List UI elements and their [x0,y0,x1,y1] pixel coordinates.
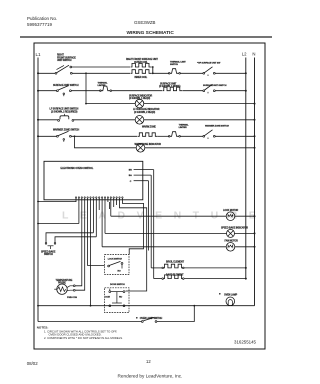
wire pin7 stub [92,202,94,233]
svg-text:N: N [252,51,255,56]
wire L1 to pin1 [38,201,76,203]
svg-text:UNIT SWITCH: UNIT SWITCH [57,60,72,62]
wire row D switch to warm zone coil [71,135,137,137]
switch surface unit row B [57,86,72,97]
wire switch to L2 row B [215,90,246,92]
switch lock switch internal [108,261,123,272]
wire L1 to row B switch [38,90,57,92]
switch warmer zone [57,131,72,142]
label temperature probe [56,279,73,285]
wire limiter to switch row D [180,135,203,137]
svg-text:SWITCH: SWITCH [170,64,178,66]
motor M2 fan motor [226,243,235,252]
svg-text:BR: BR [129,170,132,172]
wire row B switch to limiter [71,90,100,92]
lamp oven lamp [226,297,235,306]
lock switch box (dashed) [105,255,129,275]
junction L1 row D [37,135,39,137]
junction L1 pin2 wire [37,223,39,225]
junction L2 broil [245,267,247,269]
wire speed bake indicator to N [235,232,255,234]
wire lock motor row [111,215,226,217]
wire pin15 stub [116,202,118,205]
notes [37,326,123,340]
svg-text:* RF SURFACE UNIT SW: * RF SURFACE UNIT SW [197,62,221,65]
label thermal limiter row D [179,124,190,130]
switch SW1 right front surface unit (double pole) [55,65,72,74]
wire row A upper to outer coil [72,66,130,68]
wire row A tap down [85,73,87,103]
wire tap to indicator lamp [86,103,135,105]
thermal limiter row A [170,69,179,74]
junction N fan motor [254,246,256,248]
switch LF surface unit (bracket style) [58,114,74,121]
svg-text:SWITCH: SWITCH [44,254,53,256]
svg-text:BROIL ELEMENT: BROIL ELEMENT [166,262,185,264]
wire L1 to warmer zone switch [38,135,57,137]
wire row D to N [215,135,254,137]
svg-text:LIMITER: LIMITER [179,127,188,129]
wire L2 rail [245,58,247,279]
wire pin17 cascade to lock switch box top [122,202,143,255]
wire pin6 to bottom wire [90,202,92,306]
svg-text:SPEED BAKE: SPEED BAKE [41,250,56,253]
wire to broil element [151,267,162,269]
svg-text:SURFACE INDICATOR: SURFACE INDICATOR [129,94,153,97]
junction N speed bake [254,232,256,234]
indicator lamp warm zone [136,144,145,153]
thermal limiter row D [170,132,179,137]
svg-text:INNER COIL: INNER COIL [135,77,148,79]
wire pin10 to fan motor row [101,202,103,247]
svg-text:2. COMPONENTS WITH * DO NOT A: 2. COMPONENTS WITH * DO NOT APPEAR IN AL… [44,336,123,340]
svg-text:LOCK SWITCH: LOCK SWITCH [108,259,123,261]
svg-text:COM: COM [105,296,110,298]
svg-text:12: 12 [146,359,151,364]
svg-text:LF SURFACE INDICATOR: LF SURFACE INDICATOR [133,108,160,111]
junction N row C [254,119,256,121]
wire row C switch to indicator [74,119,135,121]
wire speed bake right lead [55,237,96,243]
wire L1 rail [37,58,39,322]
wire pin9 stub [98,202,100,210]
resistor temperature probe [54,284,75,294]
junction L1 row C [37,119,39,121]
label LF surface indicator [133,108,160,114]
wire to bake element [154,278,162,280]
junction L1 pin1 wire [37,201,39,203]
junction L1 row A [37,72,39,74]
wire row A lower to inner coil [72,72,130,74]
wire fan motor to N [235,246,255,248]
switch oven lamp [141,317,157,322]
header underline rule [20,36,272,38]
svg-text:ELECTRONIC OVEN CONTROL: ELECTRONIC OVEN CONTROL [61,168,94,170]
label thermal limit switch row A [170,60,186,66]
wire oven lamp switch branch [38,321,141,323]
wire broil element to L2 [184,267,246,269]
wire RF switch to L2 [215,72,246,74]
svg-text:DOOR SWITCH: DOOR SWITCH [110,284,125,286]
svg-text:BA: BA [129,174,132,177]
wire stub BA down to broil element [150,175,152,268]
svg-text:RIGHT: RIGHT [57,55,65,57]
wire row D indicator branch [75,136,137,148]
svg-text:SURFACE UNIT SWITCH: SURFACE UNIT SWITCH [203,84,227,87]
switch door switch internal [105,289,125,307]
resistor surface unit coil [163,87,183,91]
resistor broil element [162,264,184,269]
wire indicator to N row B [144,103,255,105]
wire pin5 to lock switch box [88,202,105,266]
wire row A to limiter [153,72,169,74]
label speed bake switch [41,250,56,256]
svg-text:5995377719: 5995377719 [27,22,53,27]
wire pin11 to speed bake indicator row [104,202,106,233]
svg-text:TEMPERATURE: TEMPERATURE [56,279,73,282]
electronic oven control box U1 [44,161,143,200]
wire stub C down [148,181,150,251]
wire stub BR down to bake element [153,170,155,279]
wire bottom main to N [38,305,255,307]
wire pin8 stub [95,202,97,237]
wire coil to switch row B [183,90,203,92]
indicator lamp surface indicator [135,99,144,108]
row C: LF surface unit switch label [50,108,79,114]
junction bottom wire riser [193,305,195,307]
switch speed bake [45,242,56,249]
svg-text:08/02: 08/02 [27,361,39,366]
wire pin2 to speed bake switch [78,202,80,224]
svg-text:SPEED BAKE INDICATOR: SPEED BAKE INDICATOR [221,226,248,229]
junction N row B indicator [254,103,256,105]
wire oven lamp switch to riser [157,306,194,322]
wire L1 to pin2 [38,223,79,225]
junction N row D indicator [254,147,256,149]
wire N rail [254,58,256,306]
thermal limiter row B [101,86,110,91]
label surface indicator [129,94,153,100]
svg-text:WARM ZONE: WARM ZONE [142,126,156,129]
junction L2 row B [245,90,247,92]
wire pin13 to lock motor row [110,202,112,216]
svg-text:OVEN LAMP: OVEN LAMP [224,293,238,296]
svg-text:L1: L1 [36,52,42,57]
svg-text:(2 SHOWN, 2 REQD): (2 SHOWN, 2 REQD) [134,112,155,114]
resistor inner coil [131,70,152,74]
wire fan motor row [102,246,226,248]
wire L1 to row C switch [38,119,58,121]
svg-text:(2 SHOWN, 2 REQUIRED): (2 SHOWN, 2 REQUIRED) [51,111,78,113]
svg-text:WARMER ZONE SWITCH: WARMER ZONE SWITCH [205,124,229,127]
wire bake element to L2 [184,278,246,280]
switch warmer zone right [203,130,215,139]
label right front surface unit coils [126,58,158,79]
wire lock motor to N [235,215,255,217]
svg-text:316255145: 316255145 [234,340,257,345]
svg-text:L2: L2 [242,51,247,56]
wire pin4 to probe terminal [76,202,85,290]
svg-text:FAN MOTOR: FAN MOTOR [225,239,239,242]
junction L1 bottom wire [37,305,39,307]
junction L1 row B [37,90,39,92]
junction N row D [254,135,256,137]
svg-text:WARMER ZONE SWITCH: WARMER ZONE SWITCH [53,129,80,132]
wire pin3 to probe terminal [76,202,82,286]
label thermal limiter row B [98,82,109,88]
switch surface unit right row B [203,84,215,93]
wire pin12 to door switch top left [108,202,110,209]
label surface unit coil [159,82,181,88]
wire limiter to RF switch [180,72,203,74]
wire LF indicator to N [144,119,255,121]
junction L2 bake [245,278,247,280]
wire speed bake left lead [46,233,93,243]
junction N lock motor [254,215,256,217]
wire pin16 cascade to door switch top right [120,202,147,291]
row A: right front surface unit switch label [57,55,76,62]
svg-text:GSE3WZB: GSE3WZB [134,20,156,25]
svg-text:NO: NO [119,296,122,298]
wire pin14 stub [113,202,115,207]
junction L2 row A [245,72,247,74]
door switch box (dashed) [105,288,129,313]
svg-text:SURFACE UNIT: SURFACE UNIT [160,82,177,85]
indicator lamp speed bake [227,229,235,237]
svg-text:LF SURFACE UNIT SWITCH: LF SURFACE UNIT SWITCH [50,108,79,111]
wire speed bake indicator row [105,232,227,234]
svg-text:Publication No.: Publication No. [27,16,57,21]
resistor warm zone coil [138,133,158,137]
wire coil to limiter row D [158,135,169,137]
svg-text:FRONT SURFACE: FRONT SURFACE [57,56,76,59]
switch RF surface unit [203,67,215,76]
indicator lamp LF surface [135,116,144,125]
connector pins P1-P17 on EOC [75,197,123,202]
wire limiter to surface unit coil [112,90,162,92]
svg-text:PWB CON: PWB CON [67,297,77,299]
svg-text:RIGHT FRONT SURFACE UNIT: RIGHT FRONT SURFACE UNIT [126,58,158,61]
svg-text:NO: NO [118,271,121,273]
wire L1 to row A switch [38,72,55,74]
resistor bake element [162,275,184,280]
header publication number [27,16,57,27]
motor M1 lock motor [226,212,235,221]
svg-text:Rendered by LeadVenture, Inc.: Rendered by LeadVenture, Inc. [118,374,183,379]
svg-text:WIRING SCHEMATIC: WIRING SCHEMATIC [127,30,175,36]
wire warm zone indicator to N [145,147,255,149]
resistor outer coil [131,63,152,67]
schematic border frame [34,43,265,349]
junction row B indicator tap [85,103,87,105]
junction coils merge [152,66,154,74]
